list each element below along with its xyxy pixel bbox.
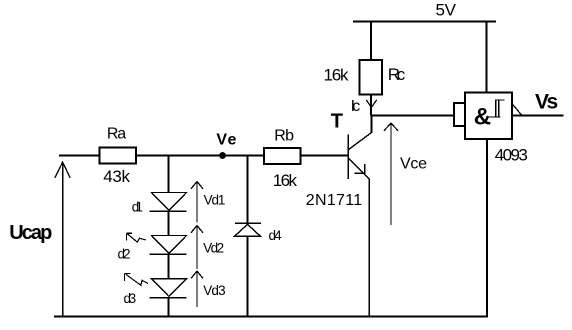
wire: Ra to Rb xyxy=(136,155,264,157)
resistor Ra xyxy=(100,148,137,164)
svg-text:Rb: Rb xyxy=(274,128,294,145)
wire: Ve to d4 xyxy=(247,156,249,224)
svg-text:d4: d4 xyxy=(269,228,283,243)
svg-text:Vd3: Vd3 xyxy=(203,283,225,298)
svg-text:Ra: Ra xyxy=(107,126,126,143)
diode d2 xyxy=(150,236,187,255)
svg-text:2N1711: 2N1711 xyxy=(306,192,362,209)
wire: Rc to collector node xyxy=(370,94,372,116)
svg-text:&: & xyxy=(474,103,491,130)
svg-text:16k: 16k xyxy=(273,171,298,190)
wire: d1 to d2 xyxy=(168,211,170,235)
resistor Rc xyxy=(360,60,383,95)
wire: d2 to d3 xyxy=(168,254,170,279)
wire: gate output xyxy=(512,104,564,116)
current arrow Ic xyxy=(366,100,376,107)
svg-text:4093: 4093 xyxy=(495,145,528,164)
svg-text:Vd2: Vd2 xyxy=(203,241,224,256)
svg-text:Ic: Ic xyxy=(351,98,361,115)
svg-text:d1: d1 xyxy=(132,199,143,214)
voltage arrow Vce xyxy=(384,123,398,225)
wire: 5V rail to Rc xyxy=(370,22,372,61)
node Ve xyxy=(219,152,226,159)
wire: collector node to gate input xyxy=(371,115,454,117)
gate U1 4093 (NAND Schmitt trigger) xyxy=(454,93,512,140)
wire: collector riser xyxy=(371,116,373,133)
svg-text:43k: 43k xyxy=(103,167,130,186)
diode d4 xyxy=(235,223,262,236)
svg-text:d3: d3 xyxy=(124,291,137,306)
wire: input from left to Ra xyxy=(59,155,100,157)
svg-text:Ucap: Ucap xyxy=(9,222,52,244)
light arrow d2 xyxy=(127,233,146,242)
svg-text:Vd1: Vd1 xyxy=(204,192,226,207)
resistor Rb xyxy=(264,148,301,164)
wire: 5V rail to gate top xyxy=(486,22,488,93)
svg-text:16k: 16k xyxy=(324,66,350,85)
svg-text:T: T xyxy=(331,110,343,132)
light arrow d3 xyxy=(125,273,148,285)
wire: emitter to ground rail xyxy=(368,179,370,317)
svg-text:Vce: Vce xyxy=(400,155,427,172)
wire: d3 to ground rail xyxy=(168,298,170,317)
svg-text:5V: 5V xyxy=(436,0,457,19)
wire: d4 to ground rail xyxy=(247,236,249,316)
wire: gate to ground rail xyxy=(486,139,488,317)
voltage arrow Vd2 xyxy=(191,226,203,270)
svg-text:Rc: Rc xyxy=(388,65,406,84)
transistor T 2N1711 xyxy=(348,132,372,179)
hysteresis symbol xyxy=(489,100,505,117)
voltage arrow Vd1 xyxy=(191,182,203,223)
wire: Ve branch to diode chain xyxy=(168,156,170,193)
wire: Rb to base xyxy=(301,155,349,157)
voltage arrow Ucap xyxy=(55,162,70,317)
power rail 5V xyxy=(353,21,496,23)
voltage arrow Vd3 xyxy=(191,271,203,307)
diode d1 xyxy=(150,193,187,212)
svg-text:d2: d2 xyxy=(118,247,131,262)
svg-text:Vs: Vs xyxy=(535,91,558,114)
ground rail xyxy=(54,316,488,318)
diode d3 xyxy=(150,279,187,298)
